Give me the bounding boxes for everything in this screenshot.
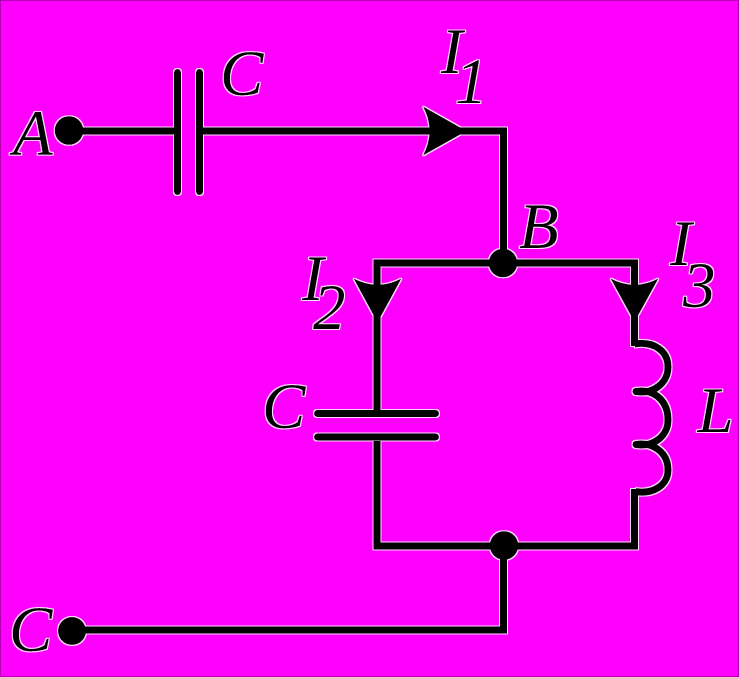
inductor L (three coil loops) [635,343,669,492]
label I3 [669,208,716,322]
bottom junction node dot [490,531,519,560]
wire from capacitor C1 to corner and down to node B [203,131,504,263]
capacitor C2 (parallel branch, horizontal plates) [318,414,436,438]
wire from node A to capacitor C1 left plate [69,128,174,135]
current arrow I3 [611,279,659,323]
wire horizontal through node B [374,260,639,267]
node A (terminal dot) [55,116,84,145]
svg-text:B: B [519,191,559,263]
capacitor C1 (series capacitor, vertical plates) [178,73,200,192]
wire right branch down from B to inductor [631,263,638,346]
svg-text:1: 1 [455,46,488,118]
svg-text:2: 2 [313,272,346,344]
wire from inductor down and left to junction [504,489,635,546]
svg-text:C: C [9,594,53,666]
label I2 [301,243,346,344]
current arrow I1 [423,107,467,156]
current arrow I2 [354,279,402,323]
svg-text:C: C [220,38,264,110]
svg-text:C: C [262,371,306,443]
node B (junction dot) [489,249,518,278]
node C (terminal dot) [58,617,86,645]
label I1 [440,16,488,118]
wire left branch down from B to capacitor C2 [374,263,381,410]
svg-text:L: L [697,375,734,447]
wire from capacitor C2 down and right to junction [377,441,504,546]
svg-text:3: 3 [682,250,716,322]
svg-text:A: A [9,98,53,170]
wire from junction down and left to node C [72,546,504,630]
